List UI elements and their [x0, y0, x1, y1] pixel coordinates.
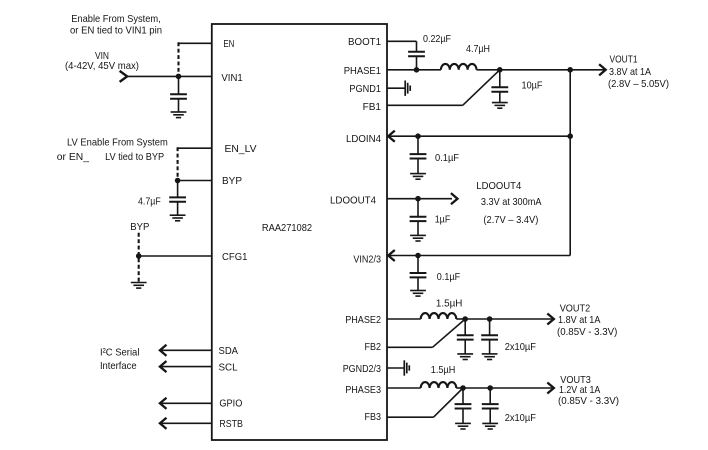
arrowhead VOUT3 (right)	[548, 383, 554, 393]
ground (below C5)	[410, 173, 426, 175]
capacitor C2 4.7µF (BYP)	[177, 181, 179, 198]
ground (below CFG1 strap)	[131, 282, 147, 284]
wire VOUT1 output	[500, 69, 606, 71]
arrowhead GPIO (left)	[160, 399, 166, 409]
wire FB2 pin	[387, 346, 433, 348]
wire FB1 pin	[387, 104, 463, 106]
wire LDOOUT4 pin	[387, 198, 452, 200]
junction node VOUT2 b	[487, 316, 493, 322]
wire EN pin	[179, 42, 212, 44]
svg-text:FB1: FB1	[363, 101, 382, 113]
capacitor C8 10µF (VOUT2 a)	[464, 319, 466, 335]
wire L2 to VOUT2 node	[456, 318, 465, 320]
wire C5 lower lead	[417, 159, 419, 174]
wire FB3 pin	[387, 416, 434, 418]
svg-text:BYP: BYP	[222, 175, 242, 187]
svg-text:4.7µH: 4.7µH	[466, 43, 490, 55]
svg-text:Interface: Interface	[100, 360, 137, 372]
wire PHASE1 pin	[387, 69, 441, 71]
ground (below C2)	[170, 214, 186, 216]
svg-text:BYP: BYP	[130, 221, 149, 233]
wire dashed EN_LV-to-BYP strap	[177, 147, 179, 180]
junction node BYP	[175, 178, 181, 184]
svg-text:RAA271082: RAA271082	[262, 222, 312, 234]
wire VIN2/3 pin	[388, 255, 570, 257]
wire FB3 diagonal to VOUT3 node	[434, 388, 464, 417]
svg-text:PHASE1: PHASE1	[344, 65, 381, 77]
svg-text:VOUT1: VOUT1	[610, 54, 638, 66]
svg-text:FB2: FB2	[365, 341, 382, 353]
wire L3 to VOUT3 node	[456, 387, 463, 389]
junction node VOUT3 b	[487, 385, 493, 391]
svg-text:PGND2/3: PGND2/3	[343, 363, 381, 375]
svg-text:or EN_: or EN_	[57, 151, 89, 163]
svg-text:10µF: 10µF	[522, 80, 543, 92]
svg-text:or EN tied to VIN1 pin: or EN tied to VIN1 pin	[70, 24, 162, 36]
wire L1 to VOUT1 node	[477, 69, 500, 71]
wire VOUT2 output	[490, 318, 554, 320]
ground (below C11)	[482, 422, 498, 424]
wire GPIO pin	[160, 402, 212, 404]
capacitor C5 0.1µF (LDOIN4)	[417, 136, 419, 154]
svg-text:1µF: 1µF	[435, 214, 451, 226]
svg-text:(0.85V - 3.3V): (0.85V - 3.3V)	[558, 395, 619, 407]
junction node PHASE1/C3	[414, 67, 420, 73]
svg-text:CFG1: CFG1	[222, 251, 248, 263]
junction node VIN2/3 / C7	[415, 253, 421, 259]
svg-text:LDOOUT4: LDOOUT4	[330, 195, 376, 207]
svg-text:VIN1: VIN1	[221, 72, 242, 84]
VIN input arrow	[121, 72, 128, 82]
svg-text:LV Enable From System: LV Enable From System	[67, 136, 168, 148]
inductor L3 1.5µH	[421, 382, 457, 388]
svg-text:EN: EN	[223, 38, 234, 50]
wire PGND1 pin	[387, 87, 405, 89]
svg-text:(2.7V – 3.4V): (2.7V – 3.4V)	[483, 214, 538, 226]
junction node VOUT2 a	[462, 316, 468, 322]
ground (below C4)	[492, 102, 508, 104]
svg-text:0.1µF: 0.1µF	[437, 271, 460, 283]
junction node CFG1	[136, 253, 142, 259]
svg-text:PHASE2: PHASE2	[345, 314, 381, 326]
wire CFG1 pin	[139, 255, 212, 257]
ground (below C6)	[410, 234, 426, 236]
ground (below C7)	[410, 290, 426, 292]
wire SDA pin	[160, 349, 212, 351]
svg-text:0.1µF: 0.1µF	[435, 152, 459, 164]
capacitor C7 0.1µF (VIN2/3)	[417, 256, 419, 274]
svg-text:3.8V at 1A: 3.8V at 1A	[609, 66, 651, 78]
capacitor C9 10µF (VOUT2 b)	[489, 319, 491, 335]
wire VIN1 pin	[128, 75, 212, 77]
ground (below C10)	[455, 422, 471, 424]
junction node LDOIN4/C5	[415, 133, 421, 139]
ground (PGND1, rotated)	[404, 81, 406, 96]
svg-text:4.7µF: 4.7µF	[138, 195, 161, 207]
wire C4 lower lead	[499, 92, 501, 103]
ground (below C9)	[482, 353, 498, 355]
wire C2 lower lead	[177, 202, 179, 215]
junction node VOUT1 / LDOIN4 branch	[567, 67, 573, 73]
wire BOOT1 pin	[387, 40, 417, 42]
junction node VOUT3 a	[460, 385, 466, 391]
svg-text:EN_LV: EN_LV	[225, 143, 257, 155]
wire FB2 diagonal to VOUT2 node	[433, 319, 466, 347]
capacitor C1 (VIN bypass)	[178, 76, 180, 94]
wire PHASE3 pin	[387, 387, 421, 389]
svg-text:PHASE3: PHASE3	[345, 384, 381, 396]
svg-text:1.5µH: 1.5µH	[431, 364, 456, 376]
wire C1 lower lead	[178, 99, 180, 112]
arrowhead LDOOUT4 (right)	[452, 194, 458, 204]
inductor L2 1.5µH	[421, 313, 457, 319]
svg-text:FB3: FB3	[365, 411, 382, 423]
arrowhead VIN2/3 (into pin)	[388, 251, 394, 261]
svg-text:(2.8V – 5.05V): (2.8V – 5.05V)	[608, 78, 669, 90]
svg-text:0.22µF: 0.22µF	[423, 33, 451, 45]
svg-text:LDOOUT4: LDOOUT4	[476, 180, 521, 192]
arrowhead LDOIN4 (into pin)	[388, 131, 394, 141]
junction node VIN1/EN	[176, 74, 182, 80]
svg-text:(0.85V - 3.3V): (0.85V - 3.3V)	[557, 326, 617, 338]
wire C9 lower lead	[489, 340, 491, 354]
svg-text:BOOT1: BOOT1	[348, 36, 381, 48]
ground (PGND2/3, rotated)	[403, 360, 405, 375]
wire C7 lower lead	[417, 277, 419, 290]
wire C6 lower lead	[417, 221, 419, 235]
capacitor C6 1µF (LDOOUT4)	[417, 199, 419, 217]
ground (below C1)	[171, 111, 187, 113]
wire dashed BYP-to-CFG1 strap	[138, 233, 140, 282]
wire PHASE2 pin	[387, 318, 421, 320]
svg-text:1.8V at 1A: 1.8V at 1A	[558, 314, 600, 326]
arrowhead VOUT2 (right)	[548, 314, 554, 324]
svg-text:LV tied to BYP: LV tied to BYP	[105, 151, 164, 163]
capacitor C10 10µF (VOUT3 a)	[462, 388, 464, 404]
svg-text:SDA: SDA	[219, 345, 239, 357]
svg-text:VIN2/3: VIN2/3	[353, 253, 381, 265]
svg-text:LDOIN4: LDOIN4	[346, 133, 381, 145]
wire BYP pin	[178, 180, 212, 182]
wire EN_LV pin	[178, 147, 212, 149]
svg-text:(4-42V, 45V max): (4-42V, 45V max)	[65, 60, 139, 72]
svg-text:3.3V at 300mA: 3.3V at 300mA	[481, 196, 542, 208]
capacitor C11 10µF (VOUT3 b)	[489, 388, 491, 404]
arrowhead SDA (left)	[160, 346, 166, 356]
wire dashed EN-to-VIN1 strap	[177, 42, 179, 76]
wire RSTB pin	[160, 422, 212, 424]
wire VOUT1-to-VIN2/3 vertical bus	[569, 70, 571, 256]
arrowhead VOUT1 (right)	[600, 65, 606, 75]
svg-text:1.5µH: 1.5µH	[436, 297, 463, 309]
capacitor C3 0.22µF (boot)	[416, 50, 418, 53]
junction node VOUT1 (L1 output)	[497, 67, 503, 73]
wire VOUT2 nodes	[465, 318, 489, 320]
svg-text:Enable From System,: Enable From System,	[71, 13, 161, 25]
wire VOUT3 nodes	[463, 387, 490, 389]
svg-text:PGND1: PGND1	[349, 83, 381, 95]
arrowhead SCL (left)	[160, 362, 166, 372]
svg-text:SCL: SCL	[219, 361, 238, 373]
wire C11 lower lead	[489, 409, 491, 424]
junction node LDOIN4/bus	[567, 133, 573, 139]
wire C3 lower lead to PHASE1	[416, 56, 418, 70]
svg-text:2x10µF: 2x10µF	[505, 341, 536, 353]
wire C10 lower lead	[462, 409, 464, 424]
capacitor C4 10µF (VOUT1)	[499, 70, 501, 88]
svg-text:GPIO: GPIO	[219, 397, 242, 409]
svg-text:I²C Serial: I²C Serial	[100, 347, 140, 359]
svg-text:2x10µF: 2x10µF	[505, 412, 536, 424]
junction node LDOOUT4/C6	[415, 196, 421, 202]
wire FB1 diagonal to VOUT1 node	[463, 70, 500, 106]
ground (below C8)	[457, 353, 473, 355]
wire BOOT1 vertical to C3	[416, 41, 418, 52]
wire C8 lower lead	[464, 340, 466, 354]
wire LDOIN4 pin	[388, 135, 570, 137]
inductor L1 4.7µH	[441, 64, 477, 70]
svg-text:RSTB: RSTB	[219, 418, 243, 430]
arrowhead RSTB (left)	[160, 419, 166, 429]
svg-text:VOUT2: VOUT2	[560, 302, 591, 314]
wire PGND2/3 pin	[387, 367, 404, 369]
IC U1 RAA271082 body	[212, 24, 387, 440]
wire SCL pin	[160, 366, 212, 368]
wire VOUT3 output	[490, 387, 554, 389]
